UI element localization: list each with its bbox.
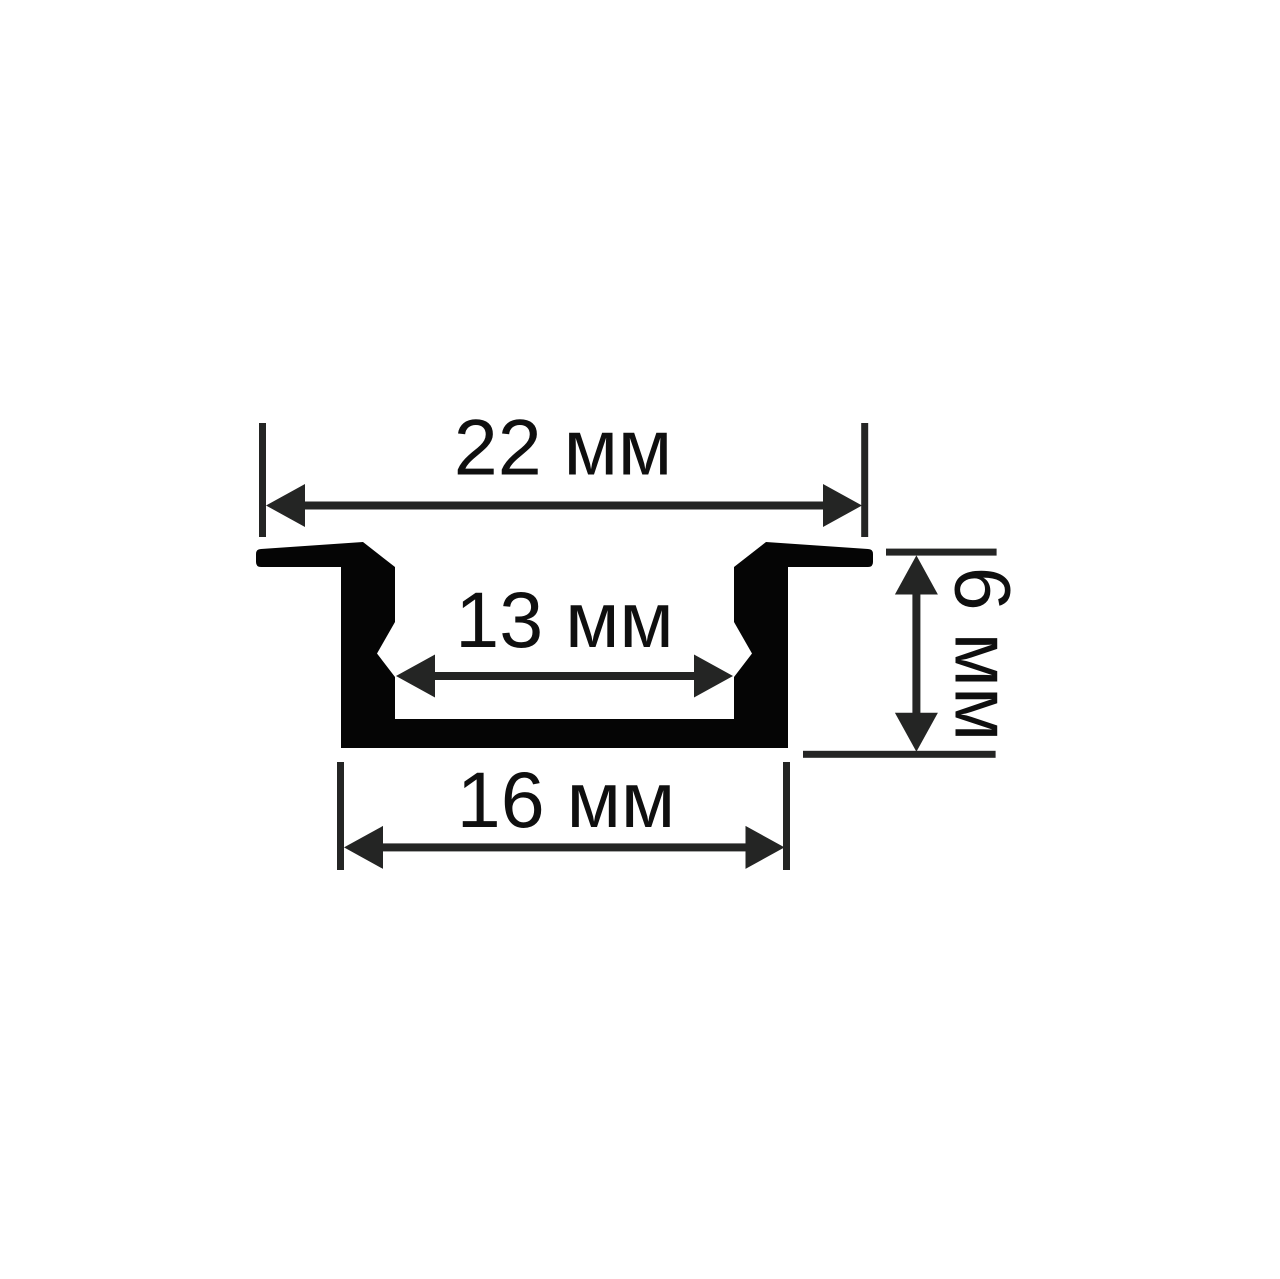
- svg-text:13 мм: 13 мм: [455, 575, 673, 664]
- svg-text:6 мм: 6 мм: [939, 567, 1028, 742]
- svg-text:16 мм: 16 мм: [457, 755, 675, 844]
- svg-text:22 мм: 22 мм: [454, 403, 672, 492]
